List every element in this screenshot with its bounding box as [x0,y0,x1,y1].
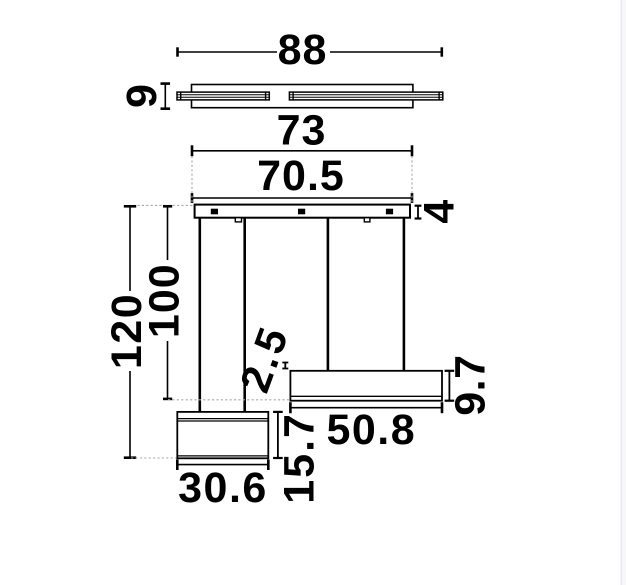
suspension wire 4 [403,218,406,371]
svg-text:70.5: 70.5 [257,152,345,200]
dimension 9 end ticks [161,84,171,109]
dimension 9.7 line [448,371,450,401]
dimension 4 line [417,206,419,219]
dimension 15.7 line [277,412,279,458]
extension dashed horizontal at 100 level [168,399,290,401]
suspension wire 1 [199,218,202,412]
dimension 30.6 end ticks [177,459,268,470]
svg-text:100: 100 [141,263,189,338]
svg-text:9: 9 [118,84,166,108]
linear light bar (right, front view) [290,371,442,401]
svg-text:88: 88 [278,26,328,74]
canopy screw square 1 [211,209,218,215]
svg-text:9.7: 9.7 [447,354,495,415]
dimension 120 line [129,206,131,457]
canopy tab 2 [364,218,370,222]
dimension 2.5 tick mark [282,363,288,369]
dimension 100 line [167,206,169,399]
dimension 50.8 line [290,407,442,409]
extension dashed vertical right [411,156,413,204]
svg-text:73: 73 [277,107,327,155]
dimension 100 end ticks [163,206,172,399]
top arm bar left segment [177,92,269,100]
top arm bar right segment [289,92,442,100]
dimension 70.5 end ticks [192,193,412,203]
extension dashed horizontal to canopy top [133,204,194,206]
canopy tab 1 [235,218,241,222]
extension dashed horizontal at 120 level [131,457,177,459]
dimension 9 line [164,84,166,109]
canopy rectangle (front view) [195,205,410,218]
svg-text:15.7: 15.7 [276,412,324,504]
dimension 70.5 line [192,197,412,199]
round pendant (left, front view) [177,412,268,458]
canopy screw square 3 [386,209,393,215]
dimension 120 end ticks [124,206,136,457]
suspension wire 3 [327,218,330,371]
light bar diffuser line [290,395,442,397]
dimension 73 end ticks [192,145,412,156]
dimension 30.6 line [177,464,268,466]
svg-text:4: 4 [416,200,464,224]
dimension 15.7 end ticks [273,412,283,458]
extension dashed vertical left [191,156,193,204]
svg-text:30.6: 30.6 [178,464,268,512]
svg-text:50.8: 50.8 [326,406,416,454]
dimension 73 line [192,150,412,152]
dimension 88 line [178,51,443,53]
dimension 88 end ticks [178,47,442,56]
dimension 4 end ticks [415,206,422,219]
dimension 50.8 end ticks [290,402,442,413]
pendant bottom band [177,455,268,457]
canopy screw square 2 [298,209,305,215]
pendant top band [177,419,268,421]
suspension wire 2 [243,218,246,412]
faint scan border line right edge [621,0,622,585]
dimension 9.7 end ticks [445,371,455,401]
top plate outer rectangle (side view) [192,85,413,108]
